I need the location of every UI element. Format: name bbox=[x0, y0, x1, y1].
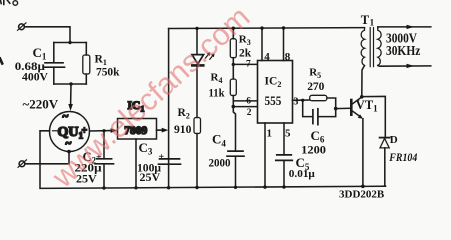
svg-text:1: 1 bbox=[267, 128, 273, 140]
terminal input 1 bbox=[18, 23, 27, 31]
wire pin 6 bbox=[233, 100, 257, 102]
capacitor C6 bbox=[313, 109, 318, 125]
svg-text:7: 7 bbox=[246, 59, 251, 69]
wire secondary top output with arrow bbox=[378, 27, 431, 28]
9V rail vertical with C3 bbox=[168, 29, 170, 188]
svg-text:2: 2 bbox=[247, 108, 252, 118]
transformer T1 secondary winding bbox=[378, 28, 381, 66]
rectifier QU1 bbox=[50, 112, 90, 152]
node junction C1R1 bottom bbox=[69, 82, 72, 85]
svg-text:270: 270 bbox=[307, 81, 324, 93]
wire C1 bottom lead bbox=[53, 67, 55, 84]
resistor R3 bbox=[230, 39, 236, 58]
wire R1 bottom lead bbox=[85, 74, 87, 84]
wire C1 top lead bbox=[53, 43, 55, 63]
timer IC2 555 bbox=[258, 61, 293, 124]
C6 parallel branch bbox=[303, 100, 313, 116]
node pins 6/2 bbox=[232, 105, 236, 109]
resistor R4 bbox=[230, 79, 236, 96]
regulator IC1 7809 bbox=[118, 119, 157, 140]
resistor R2 bbox=[194, 118, 201, 134]
wire top of C1 || R1 bbox=[54, 42, 87, 44]
transistor VT1 bbox=[351, 97, 363, 119]
wire bottom of C1 || R1 bbox=[54, 83, 87, 85]
wire pin 1 bbox=[264, 123, 266, 187]
svg-text:2k: 2k bbox=[239, 48, 252, 60]
transformer core bbox=[370, 28, 373, 67]
svg-text:4: 4 bbox=[264, 51, 270, 63]
svg-text:3DD202B: 3DD202B bbox=[339, 189, 385, 201]
wire terminal1 to C1/R1 top bbox=[24, 27, 70, 43]
arrow into IC1 bbox=[111, 128, 118, 133]
svg-text:400V: 400V bbox=[22, 71, 49, 83]
wire pin 2 bbox=[233, 106, 257, 108]
capacitor C2 bbox=[103, 131, 105, 159]
wire to VT1 base bbox=[336, 107, 351, 109]
wire pin 5 to C5 bbox=[283, 123, 285, 155]
svg-text:25V: 25V bbox=[140, 170, 161, 184]
wire collector to transformer bbox=[362, 66, 365, 97]
wire pin 4 bbox=[261, 28, 263, 60]
LED emission arrows bbox=[206, 52, 215, 59]
wire secondary bottom output with arrow bbox=[378, 65, 431, 68]
wire pin 8 bbox=[283, 28, 285, 61]
resistor R5 bbox=[310, 95, 327, 100]
capacitor C5 bbox=[276, 155, 293, 161]
wire IC1 ground pin bbox=[135, 139, 137, 188]
svg-text:D: D bbox=[390, 134, 398, 146]
wire down to rectifier with arrow bbox=[70, 84, 72, 105]
svg-text:~: ~ bbox=[63, 111, 69, 123]
wire LED to R2 bbox=[196, 65, 198, 117]
node pin7 bbox=[232, 63, 235, 66]
wire to C4 bbox=[233, 107, 235, 152]
wire terminal2 to rectifier bottom bbox=[25, 152, 69, 164]
node base bbox=[334, 107, 338, 111]
fragment of Chinese caption top-left bbox=[1, 0, 18, 5]
svg-text:3: 3 bbox=[293, 97, 298, 108]
svg-text:5: 5 bbox=[285, 128, 291, 140]
bottom ground rail bbox=[104, 186, 385, 188]
svg-text:1200: 1200 bbox=[301, 144, 326, 156]
wire R5 right bbox=[327, 98, 336, 109]
capacitor C4 bbox=[227, 151, 244, 156]
svg-text:0.01μ: 0.01μ bbox=[289, 169, 315, 180]
svg-text:~220V: ~220V bbox=[23, 97, 59, 112]
capacitor C3 bbox=[159, 159, 181, 164]
terminal input 2 bbox=[18, 160, 27, 168]
svg-text:8: 8 bbox=[285, 51, 291, 63]
wire diode anode to ground rail bbox=[384, 148, 387, 186]
top supply rail bbox=[169, 27, 365, 30]
wire rectifier plus output bbox=[90, 130, 112, 132]
wire R1 top lead bbox=[85, 43, 87, 56]
svg-text:11k: 11k bbox=[209, 88, 226, 100]
wire IC1 output with arrow bbox=[157, 129, 163, 131]
wire R3 to R4 bbox=[232, 58, 234, 79]
node collector bbox=[360, 95, 364, 99]
node junction C1R1 top bbox=[68, 41, 71, 44]
wire pin 3 output bbox=[293, 99, 310, 101]
svg-text:555: 555 bbox=[265, 94, 282, 108]
LED branch wire bbox=[196, 28, 198, 54]
node rectifier bottom bbox=[67, 150, 71, 154]
svg-text:750k: 750k bbox=[96, 67, 120, 79]
wire emitter to ground rail bbox=[362, 119, 364, 187]
node C2 top bbox=[102, 129, 105, 132]
diode D bbox=[380, 138, 390, 148]
transformer T1 primary winding bbox=[361, 28, 364, 66]
svg-text:6: 6 bbox=[246, 96, 251, 106]
svg-text:FR104: FR104 bbox=[388, 150, 417, 164]
svg-text:30KHz: 30KHz bbox=[386, 44, 420, 59]
watermark www.elecfans.com bbox=[45, 0, 256, 195]
wire pin 7 bbox=[233, 63, 257, 65]
wire R2 to ground rail bbox=[196, 134, 198, 188]
capacitor C1 bbox=[44, 63, 65, 67]
stray mark left edge bbox=[0, 59, 2, 64]
svg-text:2000: 2000 bbox=[209, 157, 231, 169]
svg-text:910: 910 bbox=[174, 124, 192, 136]
resistor R1 bbox=[83, 55, 90, 74]
wire R4 bottom bbox=[232, 96, 234, 107]
wire collector to diode bbox=[362, 96, 386, 137]
wire rectifier minus to ground rail bbox=[40, 131, 104, 189]
R3 branch bbox=[232, 27, 235, 30]
LED bbox=[192, 55, 204, 64]
